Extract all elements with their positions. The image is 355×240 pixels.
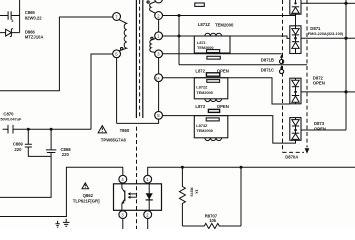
test point D871C [280,65,284,73]
svg-text:92W0.22: 92W0.22 [25,16,43,21]
node R876 [181,166,184,169]
svg-text:C865: C865 [25,10,36,15]
svg-text:D871B: D871B [261,58,274,63]
T860 label + warning triangle [98,126,130,143]
wire to right edge y=38.2 [346,37,355,39]
wire rail pin2 y=15.5 [163,15,296,17]
zener diode D866 [0,28,20,37]
Q862 LED [146,184,153,211]
isolation barrier dashed line [136,127,138,229]
wire rail pin14 y=77.7 feeding D872 [163,78,290,104]
Q862 pin 1 [144,175,152,183]
dual diode D871 [290,26,301,54]
T860 secondary pin 14 [155,74,163,82]
svg-text:14: 14 [156,76,160,80]
wire D873 output [301,129,346,131]
dashed rectifier section boundary (left) [282,0,284,152]
svg-text:L873: L873 [195,104,205,109]
svg-text:D870A: D870A [285,154,298,159]
node output D871 [344,37,347,40]
wire rail pin1 y=36 [163,35,195,37]
phase dot primary [121,48,123,50]
node output D872 [344,90,347,93]
wire rail pin8 y=115.6 feeding D873 [163,116,296,144]
wire rail pin3 y=53.8 [163,53,282,55]
wire rail pin1 y=167.3 to right edge [148,167,355,175]
Q862 pin 2 [144,211,152,219]
wire pin14-pin8 [158,82,160,112]
secondary winding arcs (pin1-pin3) [150,38,156,52]
wire secondary return: pin8 stub / pin5 down-run [117,58,159,124]
svg-text:D871C: D871C [261,68,274,73]
jumper pad (top, open) [195,3,205,6]
svg-text:TEM2000: TEM2000 [196,90,213,95]
wire rail y=64.7 [179,64,307,66]
svg-text:L872: L872 [195,68,205,73]
svg-text:220: 220 [62,152,70,157]
phase dot secondary mid [151,37,153,39]
svg-text:L871Z: L871Z [198,22,211,27]
ground (small) [55,221,59,227]
T860 secondary top pin (clipped) [155,0,163,3]
wire bus x=179 [178,16,180,65]
svg-text:3: 3 [11,18,14,23]
svg-text:220: 220 [14,147,22,152]
dashed rectifier section boundary (right) [306,0,308,148]
T860 primary winding arcs [119,20,127,51]
optocoupler Q862 box [114,184,162,211]
jumper pad L872 (open, thick) [206,73,219,76]
capacitor C869 [25,129,51,156]
transformer T860 core [136,0,142,118]
jumper pad inside L871 [207,50,220,53]
capacitor C865 [0,11,20,23]
dashed boundary bottom with arrow D870A [283,148,310,154]
capacitor C870 (series in rail) [8,125,13,134]
T860 primary winding pin 5 [113,50,121,58]
jumper pad L873 (open, thick) [208,109,219,112]
svg-text:TLP621F[GR]: TLP621F[GR] [73,198,100,203]
wire to right edge y=3.3 [346,2,355,4]
svg-text:TEM2000: TEM2000 [196,128,213,133]
Q862 photon arrows [128,192,137,199]
svg-text:TPW65G7A6: TPW65G7A6 [101,138,127,143]
wire C865/D866 common vertical to top edge [19,0,21,33]
resistor R8707 (horizontal, clipped) [182,223,241,228]
wire D872 output [301,91,346,93]
dual diode D873 [290,118,301,141]
svg-text:50V0.047uF: 50V0.047uF [0,117,22,122]
wire pin3 to bottom edge [122,219,124,230]
Q862 phototransistor [122,184,125,211]
resistor R876 (vertical) [179,167,199,226]
wire rail2 to D871 top [295,16,297,26]
wire pin5 run: rail corner up to pin 5 [91,54,113,129]
svg-text:D866: D866 [25,29,36,34]
capacitor C868 [0,129,56,197]
inductor L873Z (box with coil) [194,116,228,141]
test point D871B [280,54,284,63]
T860 secondary pin 3 [155,50,163,58]
svg-text:OPEN: OPEN [314,126,326,131]
secondary winding arcs (top) [150,2,156,14]
Q862 pin 4 [119,175,127,183]
wire cap rail y=129 [3,128,91,130]
node junction on rail (C869) [27,128,30,131]
wire to right edge y=91.9 [346,91,355,93]
phase dot secondary top [147,1,149,3]
node on pin2 rail [178,14,181,17]
inductor L872Z (box with coil) [194,78,228,102]
inductor L871 (box with coil) [194,33,230,53]
dual diode D872 [290,78,301,104]
wire right vertical x=241 [240,167,242,226]
node junction on rail (C868 / pin7 branch) [50,128,53,131]
svg-text:FMG-220A(323-100): FMG-220A(323-100) [308,31,344,36]
wire top output [301,2,346,4]
wire D871 output [301,37,346,39]
T860 secondary pin 2 [155,12,163,20]
ground [63,219,70,227]
svg-text:R876: R876 [190,188,195,198]
svg-text:T860: T860 [120,128,130,133]
T860 secondary pin 8 [155,111,163,119]
Q862 pin 3 [119,211,127,219]
T860 primary winding pin 7 [113,13,121,21]
wire pin2 to bottom edge [147,219,149,230]
node right vertical [240,166,243,169]
svg-text:MTZJ10A: MTZJ10A [25,35,44,40]
wire pin7 run: left edge to transformer pin 7 [0,17,113,91]
wire pin3-pin14 [158,58,160,74]
svg-text:OPEN: OPEN [313,81,325,86]
svg-text:TEM2000: TEM2000 [215,23,234,28]
jumper pad below pin3 rail [207,56,220,59]
T860 secondary pin 1 [155,32,163,40]
svg-text:10k: 10k [209,218,217,223]
svg-text:OPEN: OPEN [217,104,229,109]
wire pin2-pin1 [158,19,160,31]
dual diode (top, clipped) [290,0,301,16]
svg-text:Q862: Q862 [83,193,94,198]
node output top [344,2,347,5]
warning triangle Q862 [82,183,89,189]
wire L871 to D871 [230,36,290,38]
wire output bus x=346 [345,0,347,130]
wire opto pin4 run: left edge to pin 4 [0,167,123,216]
node on bus at pin1 rail [178,35,181,38]
